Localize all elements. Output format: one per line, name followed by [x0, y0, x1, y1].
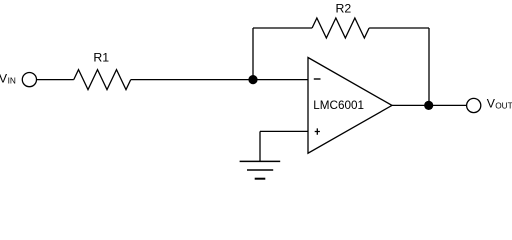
junction node at inverting input: [248, 75, 257, 84]
op-amp non-inverting input pin mark (+): [315, 128, 320, 134]
resistor R2: [312, 18, 369, 38]
resistor R1: [74, 70, 131, 90]
ground: [240, 161, 281, 178]
svg-text:IN: IN: [8, 76, 16, 86]
svg-text:LMC6001: LMC6001: [313, 99, 364, 112]
wire ground vertical drop: [259, 131, 261, 161]
input terminal VIN: [22, 73, 36, 87]
wire from op-amp output to VOUT terminal: [392, 104, 467, 106]
node VIN label: [0, 71, 16, 85]
svg-text:R2: R2: [336, 2, 352, 16]
node VOUT label: [487, 96, 512, 110]
wire from non-inverting input to ground drop: [260, 130, 308, 132]
wire feedback top rail right segment: [369, 27, 429, 29]
output terminal VOUT: [467, 98, 481, 112]
svg-text:OUT: OUT: [495, 101, 512, 111]
wire feedback top rail left segment: [253, 27, 312, 29]
svg-text:R1: R1: [93, 51, 109, 65]
op-amp U1 triangle: [308, 58, 392, 154]
op-amp inverting input pin mark (-): [314, 78, 321, 80]
wire feedback right vertical: [428, 28, 430, 105]
wire from VIN terminal to R1: [37, 79, 74, 81]
wire from R1 to op-amp inverting input: [131, 79, 308, 81]
wire feedback left vertical: [252, 28, 254, 80]
junction node at output: [424, 101, 433, 110]
